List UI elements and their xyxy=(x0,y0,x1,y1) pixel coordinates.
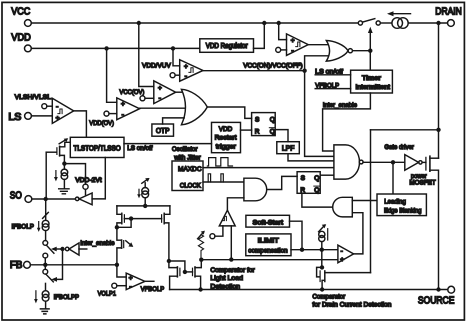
wire VCC(OV) out to OR xyxy=(176,91,185,93)
transistor sense FET xyxy=(321,250,323,268)
svg-text:R: R xyxy=(255,128,260,135)
svg-text:VDD Regulator: VDD Regulator xyxy=(206,43,249,50)
svg-text:VDD/VUV: VDD/VUV xyxy=(142,62,171,69)
svg-text:OTP: OTP xyxy=(156,128,170,135)
node SO xyxy=(44,197,48,201)
wire OR output to latch1 S xyxy=(207,107,251,118)
svg-text:+: + xyxy=(184,63,188,70)
wire TLSTOP to clamp input xyxy=(92,158,105,199)
svg-text:LPF: LPF xyxy=(282,146,295,153)
svg-text:Q: Q xyxy=(270,129,275,136)
wire FB to VFBOLP+ xyxy=(117,265,126,277)
wire VLSH out to TLSTOP xyxy=(74,111,87,137)
svg-text:CLOCK: CLOCK xyxy=(180,183,202,190)
block VDD Regulator xyxy=(200,39,254,53)
svg-text:SOURCE: SOURCE xyxy=(418,296,455,307)
buffer gate driver xyxy=(405,155,419,171)
control arrow lower switch xyxy=(54,249,63,279)
svg-text:VDD: VDD xyxy=(11,33,31,44)
waveform MAXDC xyxy=(207,158,232,166)
wire VCC rail xyxy=(31,22,358,24)
wire comparator to NOR xyxy=(308,44,327,46)
wire LS on/off to restart xyxy=(124,143,212,145)
op-amp VCC(ON)/VCC(OFF) comparator xyxy=(287,34,309,56)
wire driver node to LEB xyxy=(392,162,394,194)
wire regulator to VCC xyxy=(254,23,265,48)
node mirror source xyxy=(115,225,119,229)
svg-text:VCC: VCC xyxy=(11,6,30,17)
pin FB xyxy=(24,261,31,268)
svg-text:Inter_enable: Inter_enable xyxy=(80,240,114,247)
switch FB upper xyxy=(43,241,48,246)
svg-text:Comparator: Comparator xyxy=(312,294,345,301)
control arrow upper switch xyxy=(54,248,61,250)
wire VFBOLP stub xyxy=(315,88,350,90)
gate NAND main xyxy=(334,145,360,179)
svg-text:LS on/off: LS on/off xyxy=(127,145,152,152)
node source xyxy=(436,287,440,291)
svg-text:TLSTOP/TLSSO: TLSTOP/TLSSO xyxy=(74,145,122,152)
wire restart to latch1 R xyxy=(241,129,252,131)
waveform CLOCK xyxy=(208,174,223,182)
node lightload source xyxy=(198,287,202,291)
svg-text:S: S xyxy=(255,116,260,123)
wire latch2 R from AND2 xyxy=(302,193,333,207)
svg-text:Restart: Restart xyxy=(215,134,237,141)
wire VUV output xyxy=(203,70,305,72)
ref circle VLSH xyxy=(42,104,47,109)
wire gate link right xyxy=(185,271,193,273)
svg-text:intermittent: intermittent xyxy=(356,84,391,91)
pin SOURCE xyxy=(448,286,455,293)
node resistor foot xyxy=(199,258,203,262)
svg-text:Oscillator: Oscillator xyxy=(172,146,198,153)
node drain tap xyxy=(436,21,440,25)
svg-text:+: + xyxy=(121,101,125,108)
wire NOR output to timer xyxy=(352,51,370,70)
wire VDD rail xyxy=(31,47,199,49)
wire Inter_enable from timer xyxy=(323,93,371,151)
svg-text:IFBOLPP: IFBOLPP xyxy=(54,294,80,301)
current source ILIMIT xyxy=(319,231,325,237)
wire VDD down to OV+ xyxy=(107,48,117,102)
block Leading Edge Blanking xyxy=(377,194,426,216)
svg-text:+: + xyxy=(56,115,60,122)
node lightload gate xyxy=(183,270,187,274)
op-amp VLSH/VLSL comparator xyxy=(52,98,73,123)
svg-text:SO: SO xyxy=(10,190,22,201)
wire bias to VDD-2Vt ref xyxy=(64,164,85,184)
inverter inter_enable xyxy=(60,247,64,251)
gate AND1 xyxy=(244,178,267,201)
svg-text:Q: Q xyxy=(314,187,319,194)
pin VCC xyxy=(25,20,32,27)
svg-text:+: + xyxy=(340,257,344,264)
svg-text:VLSH/VLSL: VLSH/VLSL xyxy=(15,94,52,101)
wire mirror to light load xyxy=(167,259,171,263)
svg-text:trigger: trigger xyxy=(216,143,237,150)
node sense gate join xyxy=(320,248,324,252)
switch FB lower xyxy=(44,265,46,270)
block SR latch 1 xyxy=(252,113,276,136)
svg-text:Leading: Leading xyxy=(384,199,406,206)
svg-text:Q: Q xyxy=(270,116,275,123)
block OTP xyxy=(152,124,174,136)
wire NAND out to driver xyxy=(363,161,405,163)
wire comparator right input xyxy=(230,226,232,260)
svg-text:VOLP1: VOLP1 xyxy=(98,290,117,297)
transistor lightload right xyxy=(192,268,194,275)
wire AND1 out to latch2 S xyxy=(267,176,297,189)
wire LS pin to comparator xyxy=(31,115,52,117)
current source bias xyxy=(61,169,68,176)
node sense source xyxy=(320,287,324,291)
block SR latch 2 xyxy=(297,172,320,194)
block ILIMIT compensation xyxy=(246,234,291,256)
node VCC-VCC(OV) xyxy=(137,21,141,25)
ref circle VCC(ON) xyxy=(276,47,281,52)
wire VDD(OV) out to OR xyxy=(140,107,187,109)
ref circle VOLP1 xyxy=(112,283,117,288)
svg-text:ILIMIT: ILIMIT xyxy=(258,238,279,245)
svg-text:compensation: compensation xyxy=(248,247,287,254)
node NOR output xyxy=(368,49,372,53)
wire latch2 Q to NAND xyxy=(320,174,334,176)
svg-text:VCC(ON)/VCC(OFF): VCC(ON)/VCC(OFF) xyxy=(243,62,303,69)
block Timer intermittent xyxy=(351,70,393,93)
svg-text:VDD-2Vt: VDD-2Vt xyxy=(75,177,102,184)
transistor inter_enable switch xyxy=(117,227,121,240)
ref circle VDD-2Vt xyxy=(83,184,88,189)
op-amp VDD(OV) comparator xyxy=(117,98,140,120)
gate AND2 reversed xyxy=(333,197,353,217)
svg-text:for Drain Current Detection: for Drain Current Detection xyxy=(312,301,391,308)
wire VFBOLP output stub xyxy=(145,280,154,282)
block VDD Restart trigger xyxy=(212,122,241,152)
wire VDD to VUV+ xyxy=(173,48,180,65)
node softstart join xyxy=(300,248,304,252)
resistor variable xyxy=(198,235,203,260)
svg-text:+: + xyxy=(158,85,162,92)
op-amp VDD/VUV comparator xyxy=(180,60,203,81)
wire mirror rail xyxy=(117,205,170,207)
startup current source xyxy=(392,18,403,29)
wire VCC to comparator xyxy=(279,23,287,40)
transistor mirror left xyxy=(117,206,122,214)
svg-text:S: S xyxy=(301,175,306,182)
wire SO up to FET gate xyxy=(45,152,47,199)
pin SO xyxy=(25,196,32,203)
svg-text:Comparator for: Comparator for xyxy=(210,267,255,274)
node VCC-onoff xyxy=(277,21,281,25)
wire VUV down to NAND xyxy=(305,71,334,157)
pin DRAIN xyxy=(448,20,455,27)
node TLSTOP FET source xyxy=(62,161,66,165)
wire sense vertical xyxy=(370,130,372,273)
transistor power MOSFET xyxy=(425,157,427,170)
node mirror rail xyxy=(143,204,147,208)
wire drain sense horizontal xyxy=(371,129,439,131)
svg-text:LS on/off: LS on/off xyxy=(315,69,343,76)
svg-text:VCC(OV): VCC(OV) xyxy=(119,89,144,96)
wire AND2 top input from LEB xyxy=(352,200,377,202)
svg-text:FB: FB xyxy=(10,260,23,271)
current direction arrow xyxy=(390,13,411,15)
wire CS to drain xyxy=(408,22,447,24)
block Soft-Start xyxy=(246,215,290,227)
svg-text:MAXDC: MAXDC xyxy=(178,166,202,173)
svg-text:Gate driver: Gate driver xyxy=(384,144,414,151)
node VUV line xyxy=(302,69,306,73)
node FB switch xyxy=(43,263,47,267)
svg-text:IFBOLP: IFBOLP xyxy=(12,224,35,231)
svg-text:VDD(OV): VDD(OV) xyxy=(89,120,114,127)
wire VUV to NOR input xyxy=(305,56,328,71)
op-amp VFBOLP xyxy=(126,273,145,290)
transistor mirror right xyxy=(163,213,165,223)
wire drain vertical xyxy=(438,23,440,158)
switch control arrow from NOR xyxy=(369,30,371,51)
ref circle VDD(OV) xyxy=(104,111,109,116)
node comparator tap xyxy=(229,257,233,261)
wire CLOCK to AND1 xyxy=(203,181,244,183)
ground IFBOLPP xyxy=(40,309,49,314)
block TLSTOP/TLSSO xyxy=(70,137,124,157)
svg-text:-: - xyxy=(341,248,343,255)
transistor lightload left xyxy=(169,261,178,268)
wire VCC down to OV+ xyxy=(139,23,154,87)
svg-text:Light Load: Light Load xyxy=(210,275,243,282)
node driver input xyxy=(391,160,395,164)
svg-text:+: + xyxy=(291,38,295,45)
svg-text:Edge Blanking: Edge Blanking xyxy=(384,207,422,214)
node VCC-regulator xyxy=(262,21,266,25)
wire MAXDC to NAND xyxy=(203,167,334,169)
block oscillator MAXDC/CLOCK xyxy=(172,161,203,191)
svg-text:Inter_enable: Inter_enable xyxy=(323,102,357,109)
wire comparator out up to AND2 xyxy=(352,213,363,254)
op-amp drain current comparator xyxy=(338,245,354,263)
node mirror gate xyxy=(129,216,133,220)
wire LS on/off stub xyxy=(315,74,350,76)
node VDD-VUV xyxy=(171,46,175,50)
startup switch xyxy=(358,21,362,25)
svg-text:DRAIN: DRAIN xyxy=(435,6,462,17)
ground xyxy=(59,189,69,194)
svg-text:Q: Q xyxy=(314,175,319,182)
svg-text:Soft-Start: Soft-Start xyxy=(253,220,284,227)
wire diode connection xyxy=(117,219,131,228)
wire comparator out to AND1 xyxy=(227,198,244,210)
wire source rail xyxy=(170,289,448,291)
svg-text:+: + xyxy=(129,275,133,282)
wire FB rail xyxy=(30,264,117,266)
svg-text:R: R xyxy=(300,187,305,194)
buffer SO clamp xyxy=(79,193,92,205)
transistor TLSTOP startup FET xyxy=(46,151,56,153)
block LPF xyxy=(277,142,300,154)
pin LS xyxy=(25,113,32,120)
svg-text:LS: LS xyxy=(8,112,22,123)
ref circle VUV xyxy=(170,73,175,78)
svg-text:with Jitter: with Jitter xyxy=(173,154,201,161)
node VDD-VDD(OV) xyxy=(104,46,108,50)
wire light load sense line xyxy=(201,259,338,261)
node drain sense tap xyxy=(436,128,440,132)
wire OTP to OR xyxy=(163,118,185,124)
wire LPF to NAND xyxy=(288,154,334,161)
wire diode gate link xyxy=(169,261,185,272)
svg-text:Timer: Timer xyxy=(362,75,382,82)
svg-text:VDD: VDD xyxy=(219,126,233,133)
gate OR fault xyxy=(181,89,207,125)
op-amp up comparator xyxy=(219,210,235,226)
pin VDD xyxy=(25,45,32,52)
current source IFBOLPP xyxy=(42,291,49,298)
gate NOR startup xyxy=(326,41,348,62)
current source feedback xyxy=(142,188,149,195)
node FB right xyxy=(115,263,119,267)
wire latch1 Qbar to LPF xyxy=(275,130,288,142)
wire ILIMIT to comparator xyxy=(291,249,338,251)
ref circle comparator xyxy=(210,234,215,239)
current source IFBOLP xyxy=(45,199,47,220)
ref circle VCC(OV) xyxy=(140,96,145,101)
svg-text:VFBOLP: VFBOLP xyxy=(141,286,165,293)
op-amp VCC(OV) comparator xyxy=(154,81,176,104)
svg-text:VFBOLP: VFBOLP xyxy=(315,83,339,90)
wire softstart down xyxy=(290,221,303,250)
svg-text:MOSFET: MOSFET xyxy=(409,180,435,187)
svg-text:-: - xyxy=(56,104,59,111)
wire clamp to SO xyxy=(32,198,76,200)
